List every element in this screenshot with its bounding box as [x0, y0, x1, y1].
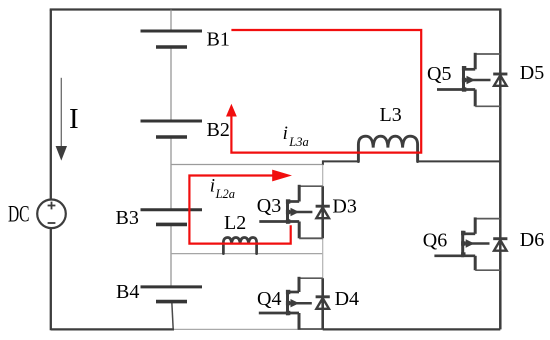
svg-text:D5: D5: [520, 62, 544, 84]
battery B4: [116, 281, 202, 303]
diode D6: [493, 229, 544, 251]
svg-text:D6: D6: [520, 229, 544, 251]
svg-text:L2: L2: [224, 212, 246, 234]
current arrow I (left branch): [56, 78, 67, 161]
wire: bottom border left (dark): [51, 328, 174, 330]
wire: battery string, B1 to B2: [170, 47, 172, 121]
mosfet Q5: [427, 53, 500, 107]
wire: node B2/B3 junction to mid rail (gray): [171, 164, 323, 166]
svg-text:D4: D4: [335, 288, 359, 310]
battery B3: [116, 207, 203, 229]
wire: mid rail D3 lead (thick): [321, 186, 324, 238]
wire: mid rail lower gray segment: [322, 238, 324, 278]
wire: mid rail upper gray segment: [322, 165, 324, 187]
wire: step joint at mid rail top: [322, 160, 324, 165]
svg-text:Q4: Q4: [257, 288, 281, 310]
svg-text:L3: L3: [380, 104, 402, 126]
svg-text:B3: B3: [116, 207, 139, 229]
wire: mid rail D4 lead to bottom border (thick): [321, 278, 324, 329]
label I: [69, 103, 79, 135]
diode D4: [316, 288, 359, 310]
wire: battery string, B3 to B4: [170, 224, 172, 287]
svg-text:Q5: Q5: [427, 63, 451, 85]
mosfet Q4: [257, 277, 323, 330]
wire: bottom border right (dark): [323, 328, 501, 330]
wire: left border upper segment: [50, 10, 52, 200]
svg-text:Q6: Q6: [423, 229, 447, 251]
dc source DC: [8, 200, 66, 229]
svg-text:i: i: [210, 176, 215, 197]
inductor L3: [358, 104, 417, 161]
diode D5: [493, 62, 544, 86]
svg-text:B4: B4: [116, 281, 139, 303]
svg-text:B2: B2: [207, 119, 230, 141]
battery B1: [141, 29, 230, 51]
diode D3: [316, 195, 357, 218]
current loop i_L3a (red): [226, 30, 421, 153]
inductor L2: [223, 212, 256, 254]
wire: top border: [50, 8, 502, 10]
wire: battery string, B4 to bottom border: [172, 302, 173, 330]
wire: right rail: [499, 10, 502, 330]
wire: L3 right terminal to right rail: [418, 160, 501, 162]
svg-text:L3a: L3a: [288, 135, 308, 149]
svg-text:DC: DC: [8, 202, 30, 227]
mosfet Q6: [423, 217, 501, 270]
wire: battery string, B2 to B3: [170, 137, 172, 210]
wire: bottom border Q4 source to rail (medium): [298, 328, 323, 330]
wire: battery string, top border to B1: [170, 10, 172, 32]
wire: node B3/B4 junction through L2 to mid rail (gray): [171, 253, 323, 255]
svg-text:Q3: Q3: [257, 195, 281, 217]
label i_L3a: [283, 123, 309, 149]
svg-text:B1: B1: [207, 29, 230, 51]
svg-text:D3: D3: [332, 195, 356, 217]
wire: bottom border middle (gray): [174, 328, 323, 330]
current loop i_L2a (red): [189, 170, 292, 244]
svg-text:i: i: [283, 123, 288, 144]
svg-text:I: I: [69, 103, 79, 135]
svg-text:L2a: L2a: [215, 187, 235, 201]
wire: mid rail to L3 left terminal: [323, 160, 359, 162]
mosfet Q3: [257, 185, 323, 239]
battery B2: [141, 119, 230, 141]
wire: left border lower segment: [50, 228, 52, 330]
label i_L2a: [210, 176, 235, 202]
